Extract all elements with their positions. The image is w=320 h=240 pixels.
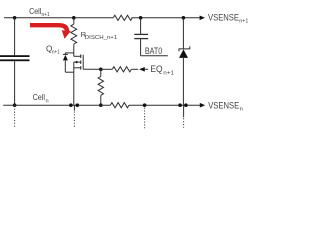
wire top rail right segment: [131, 17, 199, 19]
resistor R_DISCH_n+1 lead top: [73, 18, 75, 24]
wire BAT0 column lower: [140, 39, 142, 56]
junction dot right of source crossing: [76, 103, 80, 107]
transistor Q_n+1 channel dash lower: [80, 66, 82, 69]
capacitor BAT0 plate lower: [134, 38, 148, 40]
wire EQ resistor to input stub: [131, 68, 138, 70]
zener diode triangle: [179, 49, 188, 58]
junction dot left of zener crossing: [178, 103, 182, 107]
dotted continuation below BAT0 column: [144, 108, 146, 129]
arrowhead VSENSE_n+1: [200, 16, 205, 21]
dotted continuation below battery column: [14, 109, 16, 128]
transistor Q_n+1 drain-side vertical: [73, 53, 75, 56]
junction dot top zener column: [182, 16, 186, 20]
junction dot right of zener crossing: [184, 103, 188, 107]
svg-text:VSENSE: VSENSE: [208, 100, 239, 110]
junction dot top BAT0 column: [139, 16, 143, 20]
svg-text:DISCH_n+1: DISCH_n+1: [85, 35, 117, 41]
transistor Q_n+1 source bottom bar: [65, 71, 74, 73]
transistor Q_n+1 drain stub: [74, 55, 80, 57]
transistor Q_n+1 channel dash middle: [80, 61, 82, 64]
svg-text:n+1: n+1: [52, 50, 60, 56]
resistor R_DISCH_n+1 lead bottom: [73, 44, 75, 53]
transistor Q_n+1 source/body vertical: [73, 62, 75, 72]
resistor R_EQ lead bottom: [100, 95, 102, 105]
svg-text:n+1: n+1: [239, 19, 248, 25]
wire gate lead to EQ node: [83, 68, 101, 70]
svg-text:VSENSE: VSENSE: [208, 13, 239, 23]
wire continuation below zener crossing: [183, 105, 185, 117]
wire zener column lower: [182, 58, 184, 105]
red annotation arrow (discharge current path): [30, 25, 67, 31]
dotted continuation below source column: [73, 112, 75, 129]
resistor series EQ: [112, 67, 131, 72]
transistor Q_n+1 channel dash upper: [80, 55, 82, 58]
battery cell plate upper: [0, 55, 30, 57]
svg-text:n+1: n+1: [163, 70, 174, 76]
wire continuation below source crossing: [73, 105, 75, 110]
net flag underline BAT0: [141, 55, 168, 57]
transistor Q_n+1 drain top bar: [65, 52, 74, 54]
wire battery column upper: [14, 18, 16, 55]
junction dot bottom-left (Cell_n): [13, 103, 17, 107]
junction dot BAT0 continuation at Cell_n: [143, 103, 147, 107]
junction dot top R_DISCH: [72, 16, 76, 20]
node label VSENSE_n: [208, 100, 243, 112]
junction dot R_EQ at Cell_n: [99, 103, 103, 107]
svg-text:Cell: Cell: [33, 92, 46, 102]
zener diode cathode bar with wings: [179, 46, 190, 51]
wire source lead down to Cell_n: [73, 72, 75, 105]
junction dot EQ node: [99, 68, 103, 72]
red annotation arrowhead: [62, 30, 71, 39]
arrowhead VSENSE_n: [200, 103, 205, 108]
resistor R_EQ lead top: [100, 69, 102, 76]
label R_DISCH_n+1: [81, 30, 118, 41]
node label Cell_n: [33, 92, 49, 104]
battery cell plate lower: [0, 59, 30, 61]
svg-text:BAT0: BAT0: [145, 46, 162, 56]
svg-text:n: n: [46, 98, 49, 104]
wire EQ label stub: [145, 68, 148, 70]
svg-text:n+1: n+1: [42, 12, 50, 18]
wire Cell_n+1 top rail left segment: [4, 17, 113, 19]
body diode of Q_n+1: [63, 53, 68, 72]
capacitor BAT0 plate upper: [134, 33, 148, 35]
transistor Q_n+1 body junction dot: [76, 61, 78, 63]
svg-text:n: n: [240, 107, 243, 113]
transistor Q_n+1 source stub: [74, 67, 80, 69]
dotted continuation below zener column: [183, 118, 185, 128]
transistor Q_n+1 body stub: [74, 61, 80, 63]
transistor Q_n+1 gate plate: [82, 55, 84, 70]
junction dot left of source crossing: [69, 103, 73, 107]
wire BAT0 column upper: [140, 18, 142, 34]
resistor R_EQ body (vertical): [98, 76, 103, 95]
resistor R_DISCH_n+1 body: [71, 24, 77, 44]
node label EQ_n+1: [150, 64, 174, 76]
resistor series bottom (between Cell_n and VSENSE_n): [110, 103, 129, 108]
node label Cell_n+1: [29, 6, 50, 18]
wire Cell_n bottom rail left segment: [3, 104, 110, 106]
wire battery column lower: [14, 61, 16, 105]
svg-text:Cell: Cell: [29, 6, 41, 16]
junction dot top-left (battery column / Cell_n+1): [13, 16, 17, 20]
wire EQ node to series resistor: [101, 68, 113, 70]
svg-text:EQ: EQ: [150, 64, 162, 74]
arrowhead EQ_n+1 (pointing left): [139, 67, 145, 72]
label Q_n+1: [46, 44, 60, 55]
resistor series top (between Cell_n+1 and VSENSE_n+1): [113, 15, 132, 20]
wire zener column upper: [182, 18, 184, 49]
node label VSENSE_n+1: [208, 13, 248, 25]
wire bottom rail right segment: [129, 104, 200, 106]
